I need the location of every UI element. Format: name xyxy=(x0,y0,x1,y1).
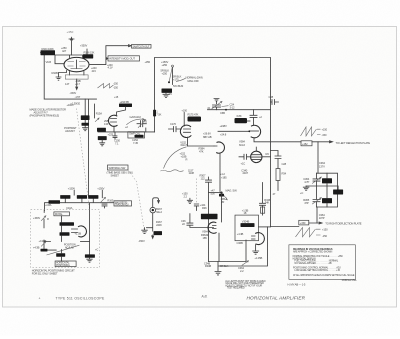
wire rail to right plate xyxy=(271,222,323,227)
capacitor coupling xyxy=(239,154,251,159)
waveform sawtooth small xyxy=(98,84,114,89)
wire to -150 arrow xyxy=(76,79,78,89)
ground xyxy=(87,258,92,262)
pot portrait xyxy=(95,118,99,122)
wire xyxy=(152,235,154,238)
ground on mid rail xyxy=(303,186,309,190)
tube V384 pentode xyxy=(251,125,261,138)
switch mag xyxy=(222,193,228,200)
resistor R152 xyxy=(119,104,132,108)
junction node xyxy=(220,192,222,194)
resistor R382 hanging xyxy=(337,186,339,190)
resistor R104 xyxy=(41,50,56,55)
column right of box xyxy=(260,183,266,216)
wire xyxy=(85,99,94,127)
trimmer capacitor C364b xyxy=(313,173,320,186)
wire grid rail xyxy=(188,145,215,147)
tube V364A xyxy=(255,233,264,245)
capacitor C150 xyxy=(113,132,117,139)
tube V115 twin triode xyxy=(64,57,89,71)
wire bottom rail xyxy=(209,233,247,261)
tube V383 triode xyxy=(216,142,224,153)
capacitor C364a xyxy=(187,214,214,228)
waveform sawtooth right plate xyxy=(296,228,316,237)
label box mag registration xyxy=(114,201,132,206)
tube V385 xyxy=(251,151,262,162)
wire curved xyxy=(164,147,187,169)
tube V152 triode xyxy=(108,115,117,126)
capacitor C37 xyxy=(194,204,198,211)
resistor R176 xyxy=(77,195,87,199)
tube V364B xyxy=(208,222,217,233)
resistor R386 xyxy=(235,118,248,123)
label box horizontal positioning xyxy=(55,261,76,267)
wire plate supply up arrow xyxy=(69,38,74,56)
resistor R173 xyxy=(60,195,70,199)
trimmer capacitor C24 xyxy=(213,105,221,110)
resistor R181 xyxy=(56,253,65,256)
resistor R161 xyxy=(82,123,89,126)
wire xyxy=(114,107,126,132)
capacitor grid xyxy=(250,110,257,125)
label box swp/mag switch xyxy=(108,165,129,170)
resistor R381 xyxy=(322,198,332,203)
capacitor C170 xyxy=(169,127,182,132)
resistor R171 xyxy=(162,89,173,93)
resistor R154 on box edge xyxy=(153,110,156,117)
resistor R153 xyxy=(98,136,107,140)
wire hook arrow xyxy=(153,198,160,208)
neon lamp B167 xyxy=(150,207,156,213)
ground xyxy=(215,272,221,275)
wire xyxy=(262,156,270,158)
label box intensity modulation out xyxy=(108,56,140,61)
wire linkage dashed xyxy=(129,171,145,232)
tube V152 half xyxy=(180,125,191,137)
pot mag registration xyxy=(100,197,106,203)
trimmer C364 arrow xyxy=(242,261,249,266)
label box dc bal xyxy=(54,212,70,216)
wire short rail to mag junction xyxy=(209,192,222,194)
ground xyxy=(187,198,192,203)
capacitor C28 xyxy=(271,100,279,105)
wire linkage dashed left xyxy=(77,109,90,210)
wire column R307 xyxy=(206,177,212,261)
resistor R177 xyxy=(88,195,98,199)
label box swp cal xyxy=(128,132,145,138)
wire supply rail xyxy=(45,190,114,254)
resistor R106 xyxy=(83,54,93,58)
wire box to main line xyxy=(259,226,271,228)
wire linkage curve xyxy=(47,245,80,255)
wire rail xyxy=(81,241,90,243)
resistor R178 xyxy=(60,222,75,225)
wire lower rail xyxy=(218,227,268,271)
wire down xyxy=(317,142,319,173)
wire grid rail long xyxy=(98,131,154,133)
wire linkage dashed to mag switch xyxy=(196,179,198,204)
switch sweep/mag xyxy=(172,67,174,84)
wire xyxy=(145,213,153,231)
dashed positioning box xyxy=(31,210,100,268)
resistor R160 xyxy=(81,115,90,120)
resistor R180 xyxy=(41,249,48,252)
wire sawtooth output riser xyxy=(89,45,131,65)
wire squiggle xyxy=(161,170,184,172)
main sweep box outline xyxy=(155,58,271,227)
delay network box xyxy=(235,215,259,241)
column C28b right of main line xyxy=(271,151,282,169)
wire plate rail xyxy=(208,109,271,111)
cathode network xyxy=(59,71,84,78)
pot adjust upper xyxy=(41,216,46,221)
wire grid rail xyxy=(218,130,250,132)
resistor R183 xyxy=(85,254,95,257)
label box sawtooth output xyxy=(132,45,152,49)
ground xyxy=(142,230,148,233)
ground above C24 xyxy=(214,99,219,104)
trimmer capacitor C365 xyxy=(313,186,320,207)
label box voltage xyxy=(299,220,309,225)
wire rail to left plate xyxy=(254,138,333,143)
attenuator ladder rails xyxy=(306,173,337,207)
wire cathode xyxy=(255,245,257,251)
resistor R364 xyxy=(201,214,218,220)
wire down to right plate rail xyxy=(316,207,318,223)
pot position xyxy=(41,241,46,246)
resistor inside box xyxy=(241,223,255,227)
ground xyxy=(56,77,61,80)
resistor R150 xyxy=(97,128,106,132)
wires inside box xyxy=(44,216,62,261)
tube V161 half xyxy=(78,226,87,237)
wire xyxy=(183,113,185,127)
label box voltage xyxy=(301,141,312,146)
ground xyxy=(83,128,88,131)
resistor R179 xyxy=(60,232,70,235)
resistor R380 xyxy=(322,178,332,183)
readings note box xyxy=(289,245,355,279)
waveform sawtooth left plate xyxy=(301,127,317,136)
resistor R172 xyxy=(49,200,61,204)
wire plate rail xyxy=(55,49,87,58)
wire left column xyxy=(43,211,45,251)
wire grid left xyxy=(41,53,97,197)
ground xyxy=(253,251,259,254)
wire stem to tube xyxy=(221,194,223,222)
resistor R175 xyxy=(188,117,202,122)
ground xyxy=(163,93,169,98)
